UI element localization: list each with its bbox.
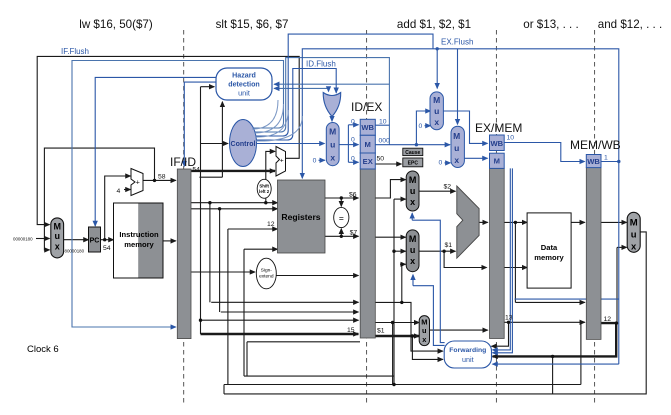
svg-text:x: x — [410, 256, 415, 266]
svg-text:0: 0 — [351, 119, 355, 126]
svg-text:M: M — [329, 127, 336, 137]
svg-text:Instruction: Instruction — [119, 230, 159, 239]
svg-text:M: M — [365, 140, 371, 149]
svg-text:PC: PC — [90, 238, 100, 245]
svg-text:x: x — [410, 197, 415, 207]
svg-text:memory: memory — [534, 253, 564, 262]
svg-text:54: 54 — [192, 167, 200, 174]
svg-text:Hazard: Hazard — [232, 72, 256, 80]
svg-text:add $1, $2, $1: add $1, $2, $1 — [397, 18, 471, 31]
svg-text:EX: EX — [363, 157, 373, 166]
svg-text:10: 10 — [379, 118, 387, 125]
svg-text:WB: WB — [587, 157, 600, 166]
svg-text:$7: $7 — [350, 230, 358, 237]
svg-text:$6: $6 — [349, 191, 357, 198]
svg-text:M: M — [409, 175, 417, 185]
svg-text:extend: extend — [259, 274, 274, 280]
svg-text:u: u — [330, 140, 335, 150]
svg-text:and $12, . . .: and $12, . . . — [598, 18, 662, 31]
svg-text:00000180: 00000180 — [13, 237, 33, 242]
svg-text:ID/EX: ID/EX — [351, 100, 382, 114]
svg-text:$1: $1 — [445, 242, 453, 249]
svg-text:58: 58 — [158, 174, 166, 181]
svg-text:u: u — [410, 245, 416, 255]
svg-text:0: 0 — [439, 160, 443, 167]
svg-text:x: x — [434, 117, 439, 127]
svg-text:detection: detection — [228, 81, 260, 89]
svg-text:M: M — [433, 95, 440, 105]
svg-text:MEM/WB: MEM/WB — [570, 138, 621, 152]
svg-text:000: 000 — [379, 138, 391, 145]
svg-text:u: u — [410, 186, 416, 196]
svg-text:slt $15, $6, $7: slt $15, $6, $7 — [216, 18, 289, 31]
svg-text:4: 4 — [117, 188, 121, 195]
svg-text:Cause: Cause — [405, 150, 420, 156]
svg-text:12: 12 — [604, 316, 612, 323]
svg-text:ID.Flush: ID.Flush — [306, 60, 336, 69]
svg-text:Data: Data — [541, 243, 558, 252]
svg-text:WB: WB — [361, 123, 374, 132]
svg-text:Forwarding: Forwarding — [449, 347, 486, 354]
svg-text:Control: Control — [231, 141, 256, 148]
svg-text:0: 0 — [313, 158, 317, 165]
svg-text:Clock 6: Clock 6 — [27, 344, 59, 355]
svg-text:IF.Flush: IF.Flush — [61, 47, 89, 56]
svg-text:Shift: Shift — [259, 184, 269, 189]
svg-text:10: 10 — [507, 135, 515, 142]
svg-text:0: 0 — [351, 156, 355, 163]
svg-text:M: M — [409, 234, 417, 244]
svg-text:or $13, . . .: or $13, . . . — [523, 18, 578, 31]
svg-text:Sign-: Sign- — [261, 268, 273, 274]
svg-text:u: u — [54, 231, 60, 241]
svg-text:u: u — [631, 230, 637, 241]
svg-text:12: 12 — [267, 221, 275, 228]
svg-text:EX/MEM: EX/MEM — [475, 121, 522, 135]
svg-text:0: 0 — [419, 123, 423, 130]
svg-text:$1: $1 — [377, 328, 385, 335]
svg-text:WB: WB — [490, 139, 503, 148]
svg-text:M: M — [494, 157, 500, 166]
svg-text:x: x — [330, 153, 335, 163]
svg-text:M: M — [630, 218, 638, 229]
svg-text:M: M — [453, 131, 460, 141]
svg-text:=: = — [339, 213, 344, 223]
svg-text:0: 0 — [351, 137, 355, 144]
svg-text:EX.Flush: EX.Flush — [441, 38, 473, 47]
svg-text:1: 1 — [604, 155, 608, 162]
svg-text:80000180: 80000180 — [65, 249, 85, 254]
svg-text:+: + — [280, 158, 284, 165]
svg-text:EPC: EPC — [408, 161, 419, 167]
svg-text:u: u — [422, 326, 427, 335]
svg-text:u: u — [454, 143, 459, 153]
svg-text:left 2: left 2 — [259, 189, 270, 194]
svg-text:Registers: Registers — [281, 212, 320, 222]
svg-text:unit: unit — [462, 355, 474, 364]
svg-text:u: u — [434, 106, 439, 116]
svg-text:unit: unit — [238, 89, 250, 98]
svg-text:x: x — [454, 155, 459, 165]
svg-text:lw $16, 50($7): lw $16, 50($7) — [79, 18, 153, 31]
svg-text:50: 50 — [377, 156, 385, 163]
svg-text:+: + — [136, 180, 140, 187]
svg-text:M: M — [53, 222, 61, 232]
svg-text:$2: $2 — [444, 184, 452, 191]
svg-text:x: x — [631, 242, 637, 253]
svg-text:13: 13 — [505, 315, 513, 322]
svg-text:15: 15 — [347, 327, 355, 334]
svg-text:memory: memory — [124, 240, 154, 249]
svg-text:x: x — [55, 242, 60, 252]
svg-text:54: 54 — [103, 245, 111, 252]
